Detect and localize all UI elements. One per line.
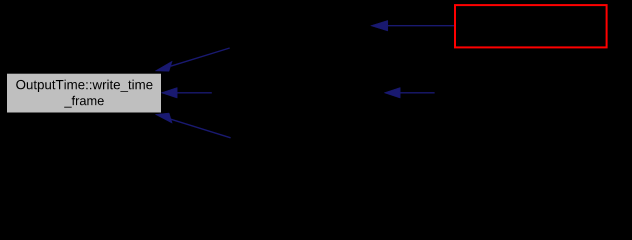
node truncated (red border, label hidden) [455, 5, 607, 47]
edge from hidden node 4 to hidden node 2 (horizontal arrow) [384, 88, 434, 99]
edge from hidden node 2 to OutputTime::write_time_frame (horizontal arrow) [161, 88, 212, 99]
label "OutputTime::write_time" (line 1 of node text) [16, 80, 152, 92]
label "_frame" (line 2 of node text) [64, 96, 104, 108]
node OutputTime::write_time_frame (current node, grey) [7, 73, 162, 113]
edge from red truncated node to hidden node 1 (horizontal arrow) [371, 20, 454, 31]
edge from hidden node 3 to OutputTime::write_time_frame (diagonal arrow from below) [155, 113, 230, 138]
edge from hidden node 1 to OutputTime::write_time_frame (diagonal arrow) [155, 48, 229, 71]
